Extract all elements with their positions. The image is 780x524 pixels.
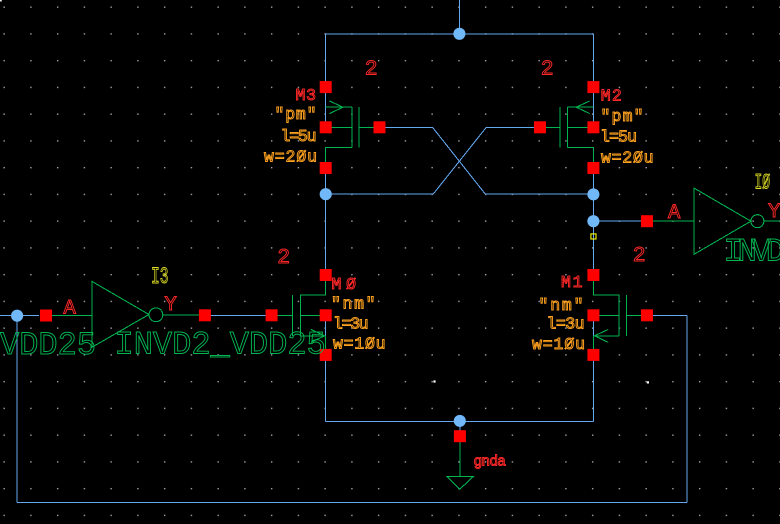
pin I3 output [199, 309, 211, 321]
svg-text:Y: Y [165, 294, 177, 317]
svg-text:"pm": "pm" [601, 107, 644, 126]
svg-text:A: A [64, 297, 77, 320]
yellow wire marker [591, 234, 596, 239]
node junction dots [11, 28, 599, 427]
transistor M1 (nmos, mirrored) symbol [593, 280, 647, 350]
pin M3 gate [374, 121, 386, 133]
pin M0 source [320, 349, 332, 361]
svg-text:l=5u: l=5u [281, 127, 317, 146]
transistor M0 (nmos) symbol [272, 280, 326, 350]
svg-text:VDD25: VDD25 [0, 327, 96, 364]
bright marker dot left [433, 380, 435, 382]
transistor M2 (pmos, mirrored) symbol [540, 101, 593, 168]
wire feedback left vertical [16, 316, 18, 503]
pin I0 input [641, 215, 653, 227]
wire left branch lower [325, 314, 327, 422]
svg-text:l=3u: l=3u [333, 314, 369, 333]
svg-text:w=1Øu: w=1Øu [333, 334, 386, 353]
wire cross-couple M3 gate to right node [381, 127, 593, 194]
pin M0 gate [266, 309, 278, 321]
svg-text:w=2Øu: w=2Øu [601, 148, 654, 167]
pin M3 source [320, 81, 332, 93]
op-amp inverter I0 symbol [647, 188, 780, 254]
pin squares (red) [40, 81, 653, 442]
pin M2 drain [587, 162, 599, 174]
pin M1 source [587, 349, 599, 361]
wire left branch upper [325, 34, 327, 130]
wire right branch mid [592, 165, 594, 277]
wire feedback bottom [17, 502, 687, 504]
cursor mark top-left [0, 0, 2, 2]
svg-text:M2: M2 [601, 87, 622, 106]
svg-text:INVD2_VDD25: INVD2_VDD25 [724, 233, 780, 270]
wire left branch mid [325, 165, 327, 277]
node top rail junction [453, 28, 465, 40]
wire input net left [0, 315, 39, 317]
svg-text:I3: I3 [151, 264, 169, 290]
node left latch [320, 188, 332, 200]
ground gnda symbol [447, 442, 474, 490]
pin M1 bulk [587, 309, 599, 321]
pin M3 bulk [320, 121, 332, 133]
wire right branch upper [592, 34, 594, 130]
wire top rail [326, 33, 594, 35]
wire I3 out to M0 gate [211, 314, 267, 316]
svg-text:M3: M3 [296, 86, 317, 105]
node right output tap [587, 215, 599, 227]
svg-text:2: 2 [365, 58, 378, 82]
svg-text:w=1Øu: w=1Øu [532, 335, 585, 354]
pin M3 drain [320, 162, 332, 174]
node right latch [587, 188, 599, 200]
pin M2 source [587, 81, 599, 93]
svg-text:w=2Øu: w=2Øu [264, 148, 317, 167]
wire gnd stub [459, 422, 461, 432]
wire top feed vertical [458, 0, 460, 34]
svg-text:l=5u: l=5u [600, 128, 637, 147]
svg-text:Y: Y [768, 201, 780, 224]
pin M1 gate [641, 309, 653, 321]
pin M2 bulk [587, 121, 599, 133]
bright marker dot right [647, 381, 649, 383]
svg-text:2: 2 [541, 58, 554, 82]
wire cross-couple M2 gate to left node [326, 127, 538, 194]
wire right branch lower [592, 314, 594, 422]
wire I0 input [593, 220, 641, 222]
pin M0 drain [320, 269, 332, 281]
wire bottom rail [326, 421, 594, 423]
pin M2 gate [534, 121, 546, 133]
node ground tap [454, 415, 466, 427]
svg-text:A: A [668, 202, 681, 225]
svg-text:M1: M1 [561, 273, 583, 292]
svg-text:2: 2 [277, 246, 290, 270]
svg-text:gnda: gnda [474, 455, 507, 471]
svg-text:"nm": "nm" [539, 296, 584, 315]
pin I3 input [40, 310, 52, 322]
svg-text:"pm": "pm" [275, 105, 317, 124]
svg-text:l=3u: l=3u [547, 314, 585, 333]
op-amp inverter I3 symbol [44, 281, 205, 347]
transistor M3 (pmos) symbol [326, 101, 380, 168]
pin M0 bulk [320, 309, 332, 321]
svg-text:INVD2_VDD25: INVD2_VDD25 [115, 327, 326, 364]
wire feedback right vertical [686, 315, 688, 502]
svg-text:IØ: IØ [755, 171, 771, 196]
pin M1 drain [587, 269, 599, 281]
wire M1 gate to feedback [653, 314, 687, 316]
svg-text:2: 2 [633, 244, 646, 268]
svg-text:"nm": "nm" [331, 295, 376, 314]
node input left [11, 310, 23, 322]
pin gnda [454, 430, 466, 442]
